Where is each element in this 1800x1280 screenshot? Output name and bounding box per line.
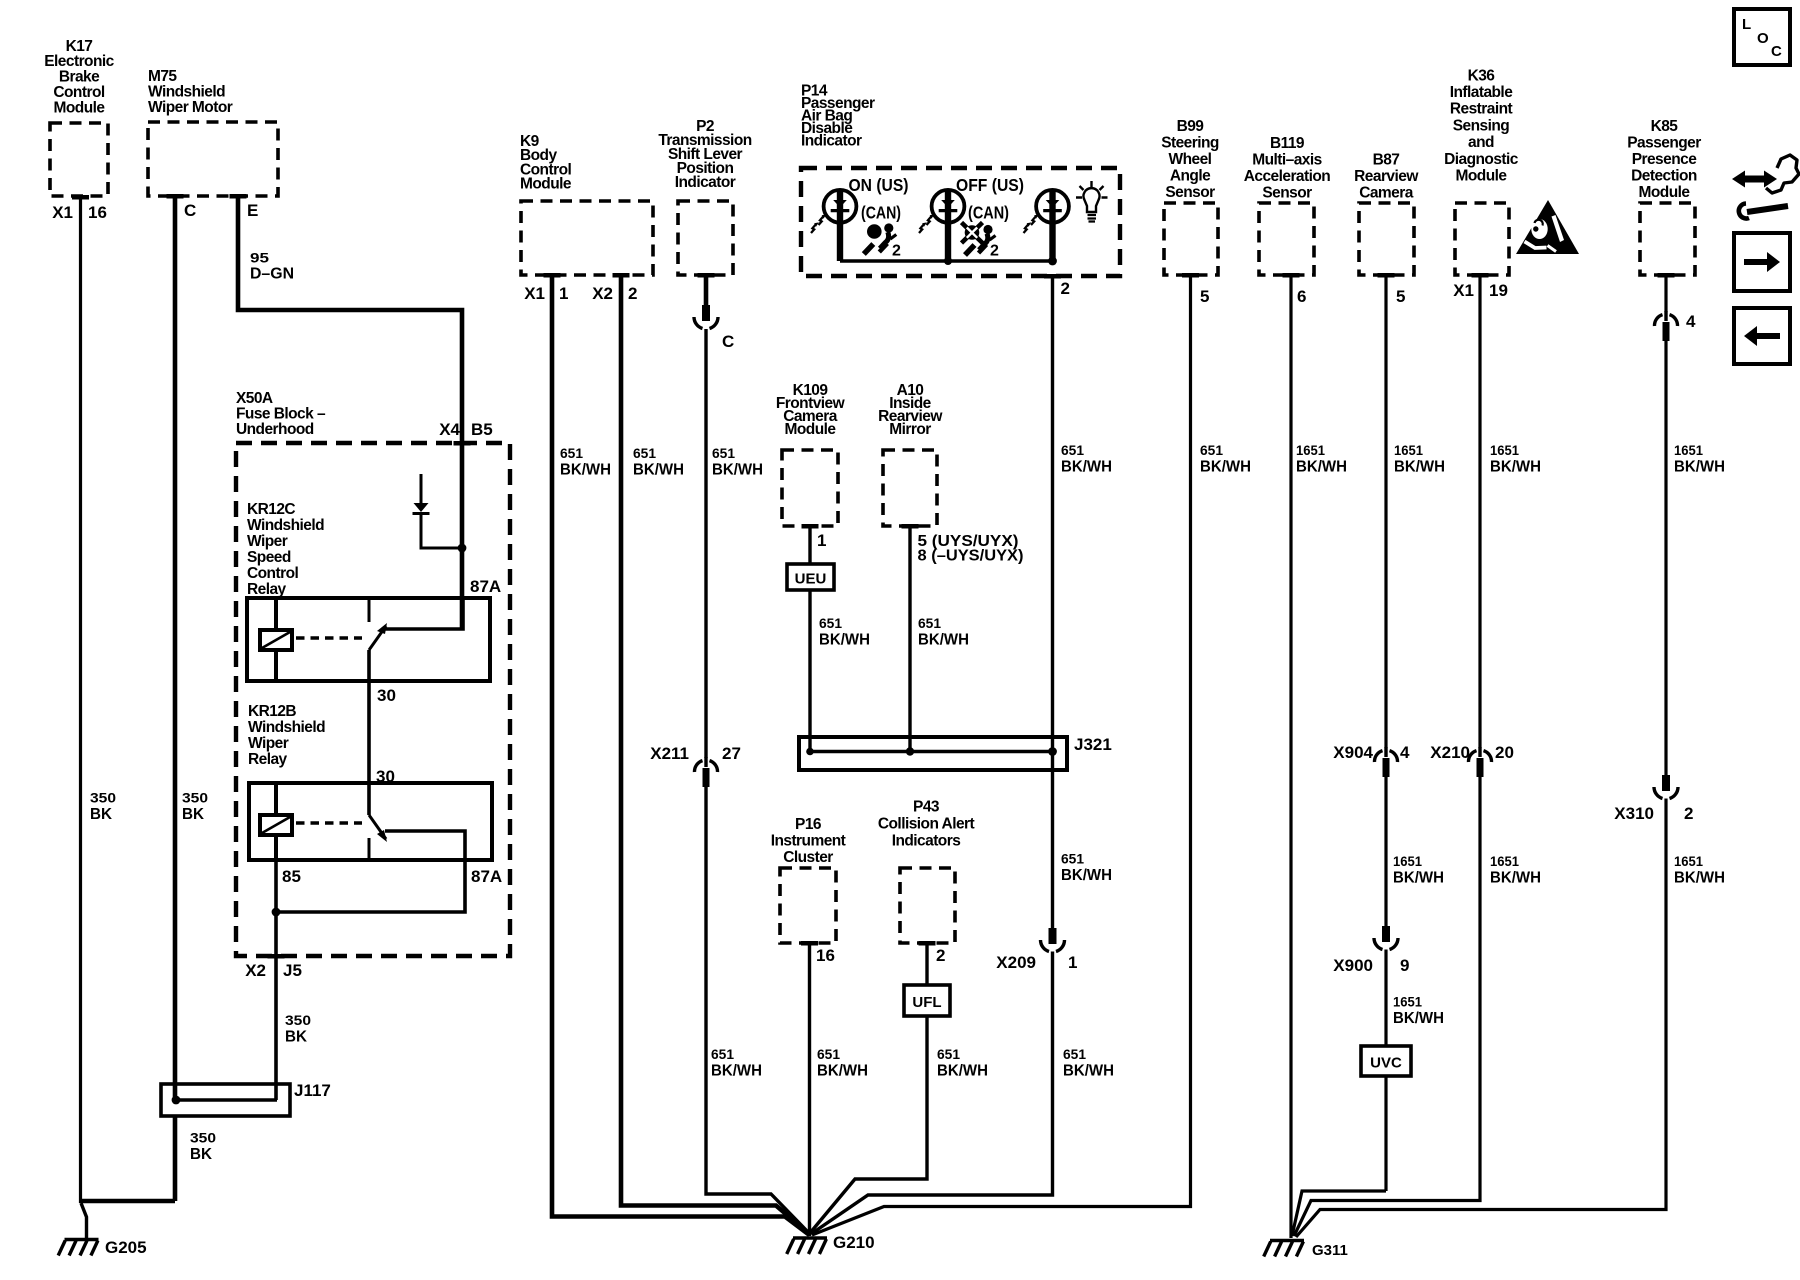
wire connector 4 to X310 [1664,341,1667,775]
svg-text:2: 2 [1061,279,1070,298]
svg-text:1651: 1651 [1674,853,1703,869]
wire X210 to G311 [1294,777,1480,1236]
svg-text:Diagnostic: Diagnostic [1444,151,1519,168]
module K109 Frontview Camera Module label [776,382,846,438]
svg-text:19: 19 [1489,281,1508,300]
wire M75 C wire below J117 [173,1116,178,1201]
module P43 box [900,868,955,946]
connector X209 [1041,928,1065,952]
label 1651 BK/WH below X900 [1393,994,1444,1028]
module B87 Rearview Camera label [1354,151,1419,201]
svg-text:ON (US): ON (US) [849,175,909,195]
module P14 box [801,168,1120,279]
svg-text:X1: X1 [524,284,545,303]
label CAN 2 [968,203,1009,223]
svg-text:KR12B: KR12B [248,703,296,720]
svg-text:9: 9 [1400,956,1409,975]
svg-text:BK/WH: BK/WH [1296,459,1347,476]
svg-text:Module: Module [54,99,106,116]
svg-text:Wiper Motor: Wiper Motor [148,99,233,116]
svg-text:27: 27 [722,744,741,763]
svg-text:M75: M75 [148,68,177,85]
module K85 box [1640,203,1695,278]
label 350 BK on M75 C wire [182,790,208,824]
svg-text:BK/WH: BK/WH [711,1063,762,1080]
svg-text:J5: J5 [283,961,302,980]
module B99 Steering Wheel Angle Sensor label [1161,118,1219,201]
module K17 Electronic Brake Control Module label [44,38,114,117]
pin X1 19 of K36 [1453,281,1508,300]
label 1651 BK/WH between X904 X900 [1393,853,1444,887]
wire A10 to J321 [908,526,911,752]
label 651 BK/WH on A10 wire [918,615,969,649]
wire K85 to connector 4 [1664,275,1667,312]
label 1651 BK/WH below X310 [1674,853,1725,887]
label 651 BK/WH on X211 wire [711,1046,762,1080]
svg-text:85: 85 [282,867,301,886]
label 651 BK/WH on K109 wire [819,615,870,649]
svg-text:D–GN: D–GN [250,266,294,283]
svg-text:OFF (US): OFF (US) [956,175,1024,195]
svg-text:2: 2 [892,243,901,260]
label 651 BK/WH on P16 wire [817,1046,868,1080]
svg-text:Indicator: Indicator [801,132,862,149]
svg-text:8 (–UYS/UYX): 8 (–UYS/UYX) [918,548,1024,565]
module P2 Transmission Shift Lever Position Indicator label [658,118,751,191]
svg-text:X1: X1 [52,203,73,222]
svg-text:2: 2 [1684,804,1693,823]
diode in fuse block [413,474,463,548]
svg-text:X1: X1 [1453,281,1474,300]
svg-text:4: 4 [1400,743,1410,762]
svg-text:X209: X209 [996,953,1036,972]
connector 4 inline K85 [1654,311,1677,341]
label 651 BK/WH on X209 wire [1063,1046,1114,1080]
svg-text:Wheel: Wheel [1169,151,1212,168]
svg-text:Fuse Block –: Fuse Block – [236,405,326,422]
label 651 BK/WH on B99 wire [1200,442,1251,476]
svg-text:350: 350 [285,1012,311,1028]
svg-text:651: 651 [1061,442,1084,458]
svg-text:X2: X2 [245,961,266,980]
pin 5 of B99 [1200,287,1209,306]
svg-text:C: C [722,332,734,351]
wire KR12B 87A loop to junction [276,860,465,912]
module K9 box [521,201,653,278]
svg-text:BK/WH: BK/WH [819,632,870,649]
hand with double arrow icon [1732,155,1799,218]
svg-text:UVC: UVC [1370,1055,1402,1072]
svg-text:1: 1 [817,531,826,550]
svg-text:and: and [1468,134,1494,151]
pin X2 2 of K9 [592,284,637,303]
module P14 Passenger Air Bag Disable Indicator label [801,82,875,149]
svg-text:(CAN): (CAN) [861,203,901,223]
junction dot P14 wire at J321 [1048,747,1057,756]
connector X310 [1654,775,1678,799]
svg-text:Camera: Camera [1359,184,1413,201]
svg-text:Windshield: Windshield [148,83,225,100]
svg-text:BK: BK [285,1029,307,1046]
svg-text:5: 5 [1200,287,1209,306]
label G311 [1312,1242,1348,1259]
junction dot LED3 bus [1048,257,1057,266]
ground G205 [58,1240,98,1256]
svg-text:651: 651 [1063,1046,1086,1062]
svg-text:K85: K85 [1651,118,1679,135]
svg-text:B5: B5 [471,420,493,439]
svg-text:1651: 1651 [1394,442,1423,458]
svg-text:X210: X210 [1430,743,1470,762]
wire X2 J5 out of fuse block [268,912,285,1100]
svg-text:Detection: Detection [1631,167,1697,184]
svg-text:1651: 1651 [1296,442,1325,458]
pin 87A of KR12C [470,577,501,596]
svg-text:Relay: Relay [247,581,287,598]
legend LOC box [1734,9,1790,65]
label 651 BK/WH on P14 wire above X209 [1061,851,1112,885]
svg-text:Module: Module [520,176,572,193]
wire X211 to G210 [706,787,809,1233]
junction dot diode to B5 wire [458,544,467,553]
wire 350 BK from K17 X1-16 to G205 [79,197,82,1203]
svg-text:E: E [247,201,258,220]
svg-text:2: 2 [990,243,999,260]
svg-text:651: 651 [1061,851,1084,867]
pin C of M75 [184,201,196,220]
relay KR12C Windshield Wiper Speed Control Relay label [247,501,324,598]
svg-text:651: 651 [711,1046,734,1062]
svg-text:Inflatable: Inflatable [1450,84,1513,101]
svg-text:BK/WH: BK/WH [712,462,763,479]
svg-text:BK/WH: BK/WH [1393,1010,1444,1027]
pin E of M75 [247,201,258,220]
junction dot 85-87A [272,908,281,917]
wire 30 between relays [367,650,371,815]
svg-text:UEU: UEU [795,571,827,588]
ground G311 [1264,1241,1304,1257]
wire X209 to G210 [811,952,1053,1235]
svg-text:BK/WH: BK/WH [1394,459,1445,476]
svg-text:G311: G311 [1312,1242,1348,1259]
label 651 BK/WH on P43 wire [937,1046,988,1080]
svg-text:BK/WH: BK/WH [937,1063,988,1080]
connector X900 [1374,926,1398,950]
svg-text:Windshield: Windshield [248,719,325,736]
svg-text:L: L [1742,16,1751,33]
wire B87 to X904 [1384,275,1387,748]
wire 651 BK/WH from P16 to G210 [808,943,811,1236]
svg-text:Underhood: Underhood [236,421,314,438]
junction dot J117 [172,1096,181,1105]
svg-text:Indicators: Indicators [892,832,961,849]
relay KR12B coil-switch dashed link [296,821,362,825]
label 95 D-GN [250,250,294,283]
module K36 box [1455,203,1509,278]
svg-text:X50A: X50A [236,390,273,407]
svg-text:BK: BK [190,1146,212,1163]
svg-text:1: 1 [1068,953,1077,972]
label OFF (US) [956,175,1024,195]
label X209 [996,953,1077,972]
relay KR12B coil [260,783,292,860]
wire KR12B 85 to junction [274,860,278,912]
svg-text:20: 20 [1495,743,1514,762]
junction dot J321 A10 [906,747,914,755]
module M75 box [148,122,278,199]
svg-text:BK/WH: BK/WH [918,632,969,649]
svg-text:X211: X211 [650,744,689,763]
label J117 [294,1081,331,1100]
svg-text:BK/WH: BK/WH [1674,870,1725,887]
svg-text:Wiper: Wiper [248,735,289,752]
svg-text:651: 651 [937,1046,960,1062]
svg-text:BK/WH: BK/WH [1063,1063,1114,1080]
label G205 [105,1238,147,1257]
svg-text:C: C [184,201,196,220]
svg-text:X904: X904 [1333,743,1373,762]
label 4 connector [1686,312,1696,331]
pin 87A of KR12B [471,867,502,886]
pin X1 1 of K9 [524,284,568,303]
svg-text:BK: BK [182,806,204,823]
airbag icon 2 crossed [962,223,996,256]
pin X1 16 of K17 [52,203,107,222]
svg-text:J321: J321 [1074,735,1112,754]
wire UVC to G311 [1292,1191,1386,1236]
svg-text:2: 2 [936,946,945,965]
connector X211 [694,757,717,787]
svg-text:Passenger: Passenger [1627,134,1701,151]
label J321 [1074,735,1112,754]
pin 6 of B119 [1297,287,1306,306]
indicator LED ON lamp [811,190,856,261]
wire P43 through UFL to G210 [810,943,927,1233]
svg-text:Wiper: Wiper [247,533,288,550]
wire B5 feed into relay KR12C 87A [460,443,465,629]
fuse UEU box [787,564,834,590]
svg-text:1651: 1651 [1393,994,1422,1010]
module B99 box [1164,203,1218,278]
pin 5 of B87 [1396,287,1405,306]
label X210 [1430,743,1514,762]
svg-text:1651: 1651 [1674,442,1703,458]
relay KR12B Windshield Wiper Relay label [248,703,325,768]
wire 95 D-GN from M75 E to fuse block X4 B5 [238,196,462,443]
svg-text:350: 350 [190,1130,216,1146]
svg-text:651: 651 [918,615,941,631]
pin 2 of P14 [1061,279,1070,298]
svg-text:Multi–axis: Multi–axis [1252,151,1321,168]
relay KR12C coil [260,598,292,681]
svg-text:B87: B87 [1373,151,1400,168]
label 1651 BK/WH on B87 wire [1394,442,1445,476]
label 350 BK below J117 [190,1130,216,1164]
svg-text:4: 4 [1686,312,1696,331]
airbag warning triangle icon [1516,200,1579,254]
svg-text:UFL: UFL [912,994,941,1011]
fuse block X50A Underhood box [236,443,510,956]
svg-text:P16: P16 [795,816,822,833]
label 350 BK on K17 wire [90,790,116,824]
pin 5 8 of A10 [918,533,1024,565]
label C connector [722,332,734,351]
svg-text:B119: B119 [1270,135,1305,152]
svg-text:G210: G210 [833,1233,875,1252]
svg-text:BK/WH: BK/WH [633,462,684,479]
svg-text:350: 350 [182,790,208,806]
svg-text:P43: P43 [913,798,940,815]
svg-text:Presence: Presence [1632,151,1697,168]
connector X210 [1468,747,1491,777]
airbag icon 1 [864,223,897,254]
svg-text:1: 1 [559,284,568,303]
pin 30 of KR12B [376,767,395,786]
svg-text:651: 651 [817,1046,840,1062]
label 1651 BK/WH below X210 [1490,853,1541,887]
svg-text:Acceleration: Acceleration [1244,168,1331,185]
svg-text:651: 651 [1200,442,1223,458]
svg-text:Cluster: Cluster [783,849,833,866]
pin 2 of P43 [936,946,945,965]
svg-text:Rearview: Rearview [1354,168,1419,185]
wire P2 to connector C [704,275,709,306]
wire X904 to X900 [1384,777,1387,926]
pin 1 of K109 [817,531,826,550]
splice pack J117 box [161,1084,290,1116]
label X211 [650,744,741,763]
svg-text:Instrument: Instrument [771,832,846,849]
connector X904 [1374,747,1397,777]
svg-text:KR12C: KR12C [247,501,295,518]
label X904 [1333,743,1410,762]
relay KR12B box [249,783,492,860]
svg-text:BK/WH: BK/WH [560,462,611,479]
module K17 box [50,123,108,200]
svg-text:Steering: Steering [1161,134,1219,151]
svg-text:G205: G205 [105,1238,147,1257]
svg-text:K36: K36 [1468,67,1496,84]
svg-text:O: O [1757,30,1769,47]
wire 1651 BK/WH from B119 to G311 [1289,275,1292,1238]
svg-text:BK/WH: BK/WH [1393,870,1444,887]
svg-text:Sensing: Sensing [1453,117,1510,134]
svg-text:BK/WH: BK/WH [1061,459,1112,476]
fuse UVC box [1361,1046,1411,1076]
label X310 [1614,804,1693,823]
label 651 BK/WH on K9 X1 wire [560,445,611,479]
splice pack J321 box [799,737,1067,770]
label 651 BK/WH on K9 X2 wire [633,445,684,479]
junction dot J321 left [806,748,814,756]
fuse block X50A label [236,390,326,438]
svg-text:C: C [1771,43,1782,60]
junction dot LED2 bus [944,257,952,265]
svg-text:Angle: Angle [1170,167,1211,184]
svg-text:BK/WH: BK/WH [1490,870,1541,887]
svg-text:651: 651 [819,615,842,631]
wire K109 pin1 through UEU to J321 [808,526,811,752]
wire K36 to X210 [1478,275,1481,748]
svg-text:651: 651 [633,445,656,461]
pin 85 of KR12B [282,867,301,886]
connector C inline [694,305,718,329]
svg-text:Mirror: Mirror [889,421,931,438]
indicator LED OFF lamp [919,190,964,261]
pin 16 of P16 [816,946,835,965]
module P2 box [678,201,733,278]
label 651 BK/WH on P2 wire [712,445,763,479]
wire C to X211 [704,329,707,758]
svg-text:Restraint: Restraint [1450,101,1513,118]
indicator LED bulb lamp [1024,190,1069,261]
svg-text:Control: Control [247,565,298,582]
wire X310 to G311 [1296,799,1666,1238]
svg-text:Module: Module [785,421,837,438]
legend left arrow box [1734,308,1790,364]
svg-text:BK/WH: BK/WH [1490,459,1541,476]
module B87 box [1359,203,1414,278]
bus bar inside J321 [810,750,1053,753]
svg-text:BK/WH: BK/WH [1061,867,1112,884]
svg-text:16: 16 [816,946,835,965]
label 2 airbag 1 [892,243,901,260]
label X900 [1333,956,1409,975]
label G210 [833,1233,875,1252]
svg-text:BK/WH: BK/WH [1200,459,1251,476]
module P16 box [780,868,836,946]
wire bus inside P14 [840,259,1053,263]
svg-text:Relay: Relay [248,751,288,768]
label 350 BK on X2 J5 wire [285,1012,311,1046]
module K36 Inflatable Restraint Sensing and Diagnostic Module label [1444,67,1519,184]
svg-text:Windshield: Windshield [247,517,324,534]
svg-text:16: 16 [88,203,107,222]
relay KR12B switch [369,815,465,860]
svg-text:BK/WH: BK/WH [1674,459,1725,476]
pin X2 J5 of fuse block [245,961,302,980]
module B119 box [1259,203,1314,278]
svg-text:6: 6 [1297,287,1306,306]
wire 651 BK/WH from K9 X1-1 to G210 [552,275,810,1235]
label 2 airbag 2 [990,243,999,260]
svg-text:Speed: Speed [247,549,291,566]
wire X900 to UVC [1384,950,1387,1192]
svg-text:87A: 87A [470,577,501,596]
legend right arrow box [1734,233,1790,291]
label CAN 1 [861,203,901,223]
svg-text:X2: X2 [592,284,613,303]
svg-text:5: 5 [1396,287,1405,306]
pin 30 of KR12C [377,686,396,705]
light bulb icon [1076,181,1108,222]
svg-text:30: 30 [377,686,396,705]
svg-text:1651: 1651 [1490,853,1519,869]
ground G210 [787,1238,827,1254]
relay KR12C box [247,598,490,681]
module K109 box [782,450,838,529]
svg-text:87A: 87A [471,867,502,886]
module A10 box [883,450,937,529]
svg-text:Indicator: Indicator [675,174,736,191]
svg-text:BK: BK [90,806,112,823]
module M75 Windshield Wiper Motor label [148,68,233,116]
wire 651 BK/WH from K9 X2-2 to G210 [621,275,810,1234]
svg-text:B99: B99 [1177,118,1205,135]
svg-text:BK/WH: BK/WH [817,1063,868,1080]
svg-text:1651: 1651 [1490,442,1519,458]
module K85 Passenger Presence Detection Module label [1627,118,1701,201]
